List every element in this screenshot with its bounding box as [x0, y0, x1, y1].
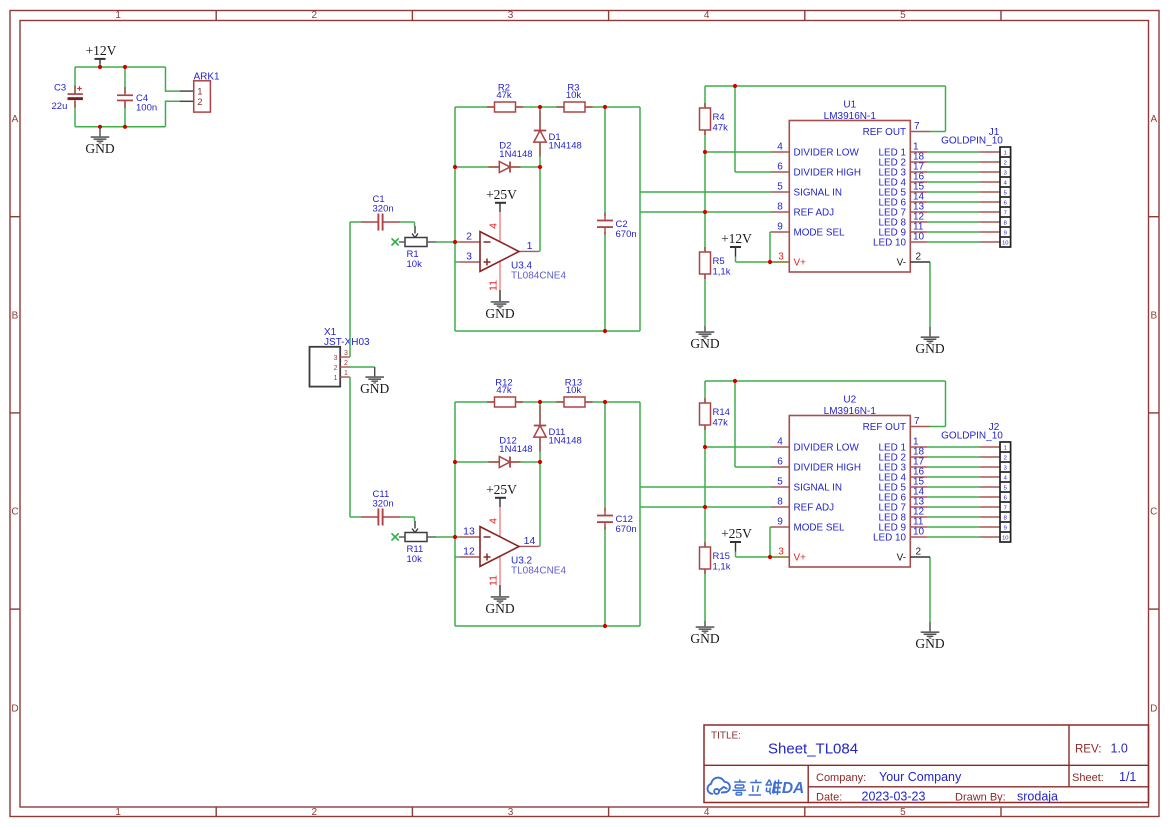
svg-text:1N4148: 1N4148 — [549, 141, 582, 152]
svg-text:22u: 22u — [52, 101, 68, 112]
svg-text:5: 5 — [777, 182, 783, 193]
svg-text:3: 3 — [466, 251, 472, 263]
svg-text:+25V: +25V — [486, 187, 517, 202]
svg-text:V+: V+ — [794, 553, 807, 564]
svg-text:1,1k: 1,1k — [713, 267, 731, 278]
svg-text:10k: 10k — [566, 90, 582, 101]
svg-text:GND: GND — [360, 381, 389, 396]
svg-text:11: 11 — [488, 280, 500, 291]
svg-text:2: 2 — [916, 547, 922, 558]
svg-text:MODE SEL: MODE SEL — [794, 523, 846, 534]
svg-text:REV:: REV: — [1075, 744, 1101, 756]
svg-text:1: 1 — [334, 375, 338, 382]
svg-text:REF ADJ: REF ADJ — [794, 503, 835, 514]
svg-text:47k: 47k — [496, 90, 512, 101]
svg-text:3: 3 — [508, 10, 514, 21]
svg-text:LED 10: LED 10 — [873, 238, 906, 249]
svg-text:11: 11 — [488, 575, 500, 586]
svg-text:1: 1 — [344, 370, 348, 377]
svg-text:+12V: +12V — [86, 43, 117, 58]
svg-text:C: C — [11, 507, 18, 518]
svg-text:2: 2 — [1004, 160, 1007, 166]
svg-text:SIGNAL IN: SIGNAL IN — [794, 483, 842, 494]
svg-text:1: 1 — [1004, 445, 1007, 451]
svg-text:Sheet_TL084: Sheet_TL084 — [768, 741, 858, 758]
svg-text:3: 3 — [334, 355, 338, 362]
svg-text:9: 9 — [1004, 230, 1007, 236]
svg-text:+25V: +25V — [486, 482, 517, 497]
svg-text:2: 2 — [916, 252, 922, 263]
svg-text:REF OUT: REF OUT — [863, 127, 906, 138]
svg-text:3: 3 — [778, 547, 784, 558]
svg-text:47k: 47k — [496, 385, 512, 396]
svg-text:670n: 670n — [616, 229, 637, 240]
svg-text:8: 8 — [1004, 220, 1007, 226]
svg-text:3: 3 — [1004, 465, 1007, 471]
svg-text:2023-03-23: 2023-03-23 — [862, 790, 926, 804]
svg-text:R14: R14 — [713, 407, 730, 418]
svg-text:10: 10 — [913, 527, 925, 538]
svg-text:GND: GND — [485, 601, 514, 616]
svg-text:6: 6 — [777, 162, 783, 173]
svg-text:C3: C3 — [54, 83, 66, 94]
svg-text:7: 7 — [914, 416, 920, 427]
svg-text:1: 1 — [1004, 150, 1007, 156]
svg-text:9: 9 — [777, 517, 783, 528]
svg-text:DIVIDER HIGH: DIVIDER HIGH — [794, 463, 862, 474]
svg-text:3: 3 — [508, 807, 514, 818]
svg-text:R5: R5 — [713, 256, 725, 267]
svg-text:3: 3 — [344, 350, 348, 357]
svg-text:Drawn By:: Drawn By: — [955, 792, 1006, 804]
svg-text:1/1: 1/1 — [1119, 770, 1136, 784]
svg-text:2: 2 — [334, 365, 338, 372]
svg-text:GND: GND — [915, 636, 944, 651]
svg-text:TL084CNE4: TL084CNE4 — [511, 270, 566, 281]
svg-text:DIVIDER LOW: DIVIDER LOW — [794, 443, 860, 454]
svg-text:V-: V- — [897, 553, 906, 564]
svg-text:GND: GND — [85, 141, 114, 156]
svg-text:GND: GND — [485, 306, 514, 321]
svg-text:+12V: +12V — [721, 231, 752, 246]
svg-text:4: 4 — [777, 437, 783, 448]
svg-text:B: B — [12, 310, 19, 321]
svg-text:13: 13 — [463, 526, 475, 538]
svg-text:R15: R15 — [713, 551, 730, 562]
svg-text:U2: U2 — [843, 395, 856, 406]
svg-text:7: 7 — [1004, 210, 1007, 216]
svg-text:10k: 10k — [407, 554, 423, 565]
svg-text:7: 7 — [1004, 505, 1007, 511]
svg-text:10: 10 — [1002, 240, 1008, 246]
svg-text:4: 4 — [704, 807, 710, 818]
svg-text:5: 5 — [900, 10, 906, 21]
svg-text:1: 1 — [115, 10, 121, 21]
svg-text:SIGNAL IN: SIGNAL IN — [794, 188, 842, 199]
svg-text:5: 5 — [1004, 190, 1007, 196]
svg-text:2: 2 — [344, 360, 348, 367]
svg-text:10: 10 — [1002, 535, 1008, 541]
svg-text:2: 2 — [1004, 455, 1007, 461]
svg-text:D: D — [1150, 704, 1157, 715]
svg-text:LM3916N-1: LM3916N-1 — [824, 111, 877, 122]
svg-text:U1: U1 — [843, 100, 856, 111]
svg-text:9: 9 — [777, 222, 783, 233]
svg-text:GND: GND — [915, 341, 944, 356]
svg-text:REF ADJ: REF ADJ — [794, 208, 835, 219]
svg-text:C: C — [1150, 507, 1157, 518]
svg-text:670n: 670n — [616, 524, 637, 535]
svg-text:8: 8 — [1004, 515, 1007, 521]
svg-text:1,1k: 1,1k — [713, 562, 731, 573]
svg-text:1: 1 — [527, 240, 533, 252]
svg-text:8: 8 — [777, 497, 783, 508]
svg-text:A: A — [1150, 114, 1157, 125]
svg-text:EDA: EDA — [772, 780, 805, 797]
svg-text:1N4148: 1N4148 — [499, 444, 532, 455]
svg-text:B: B — [1150, 310, 1157, 321]
svg-text:3: 3 — [778, 252, 784, 263]
svg-text:Sheet:: Sheet: — [1072, 772, 1104, 784]
svg-text:V-: V- — [897, 258, 906, 269]
svg-text:10k: 10k — [407, 259, 423, 270]
svg-text:Company:: Company: — [816, 772, 866, 784]
svg-text:ARK1: ARK1 — [194, 72, 221, 83]
svg-text:320n: 320n — [373, 498, 394, 509]
svg-text:DIVIDER LOW: DIVIDER LOW — [794, 148, 860, 159]
svg-text:12: 12 — [463, 546, 475, 558]
svg-text:1N4148: 1N4148 — [549, 436, 582, 447]
svg-text:100n: 100n — [136, 102, 157, 113]
svg-text:47k: 47k — [713, 123, 729, 134]
svg-text:GOLDPIN_10: GOLDPIN_10 — [941, 135, 1003, 146]
svg-text:2: 2 — [312, 10, 318, 21]
svg-text:TITLE:: TITLE: — [711, 731, 741, 742]
svg-text:MODE SEL: MODE SEL — [794, 228, 846, 239]
svg-text:1N4148: 1N4148 — [499, 149, 532, 160]
svg-text:5: 5 — [900, 807, 906, 818]
svg-text:5: 5 — [777, 477, 783, 488]
svg-text:4: 4 — [488, 223, 500, 229]
svg-text:4: 4 — [488, 518, 500, 524]
svg-text:5: 5 — [1004, 485, 1007, 491]
svg-text:2: 2 — [312, 807, 318, 818]
svg-text:2: 2 — [466, 231, 472, 243]
svg-text:Date:: Date: — [816, 792, 842, 804]
svg-text:6: 6 — [777, 457, 783, 468]
svg-text:1.0: 1.0 — [1111, 742, 1128, 756]
svg-text:JST-XH03: JST-XH03 — [324, 337, 370, 348]
svg-text:Your Company: Your Company — [879, 770, 962, 784]
svg-text:V+: V+ — [794, 258, 807, 269]
svg-text:8: 8 — [777, 202, 783, 213]
svg-text:47k: 47k — [713, 418, 729, 429]
svg-text:GND: GND — [690, 336, 719, 351]
svg-text:GOLDPIN_10: GOLDPIN_10 — [941, 430, 1003, 441]
svg-text:10k: 10k — [566, 385, 582, 396]
svg-text:10: 10 — [913, 232, 925, 243]
svg-text:+25V: +25V — [721, 526, 752, 541]
svg-text:14: 14 — [524, 535, 536, 547]
svg-text:9: 9 — [1004, 525, 1007, 531]
svg-text:LED 10: LED 10 — [873, 533, 906, 544]
svg-text:320n: 320n — [373, 203, 394, 214]
svg-text:4: 4 — [704, 10, 710, 21]
svg-text:srodaja: srodaja — [1017, 790, 1058, 804]
svg-text:7: 7 — [914, 121, 920, 132]
svg-text:A: A — [12, 114, 19, 125]
svg-text:6: 6 — [1004, 200, 1007, 206]
svg-text:6: 6 — [1004, 495, 1007, 501]
svg-text:2: 2 — [197, 97, 202, 108]
svg-text:REF OUT: REF OUT — [863, 422, 906, 433]
svg-text:1: 1 — [115, 807, 121, 818]
svg-text:D: D — [11, 704, 18, 715]
svg-text:R4: R4 — [713, 112, 725, 123]
svg-text:4: 4 — [777, 142, 783, 153]
svg-text:GND: GND — [690, 631, 719, 646]
svg-text:TL084CNE4: TL084CNE4 — [511, 565, 566, 576]
svg-text:LM3916N-1: LM3916N-1 — [824, 406, 877, 417]
svg-text:DIVIDER HIGH: DIVIDER HIGH — [794, 168, 862, 179]
svg-text:3: 3 — [1004, 170, 1007, 176]
